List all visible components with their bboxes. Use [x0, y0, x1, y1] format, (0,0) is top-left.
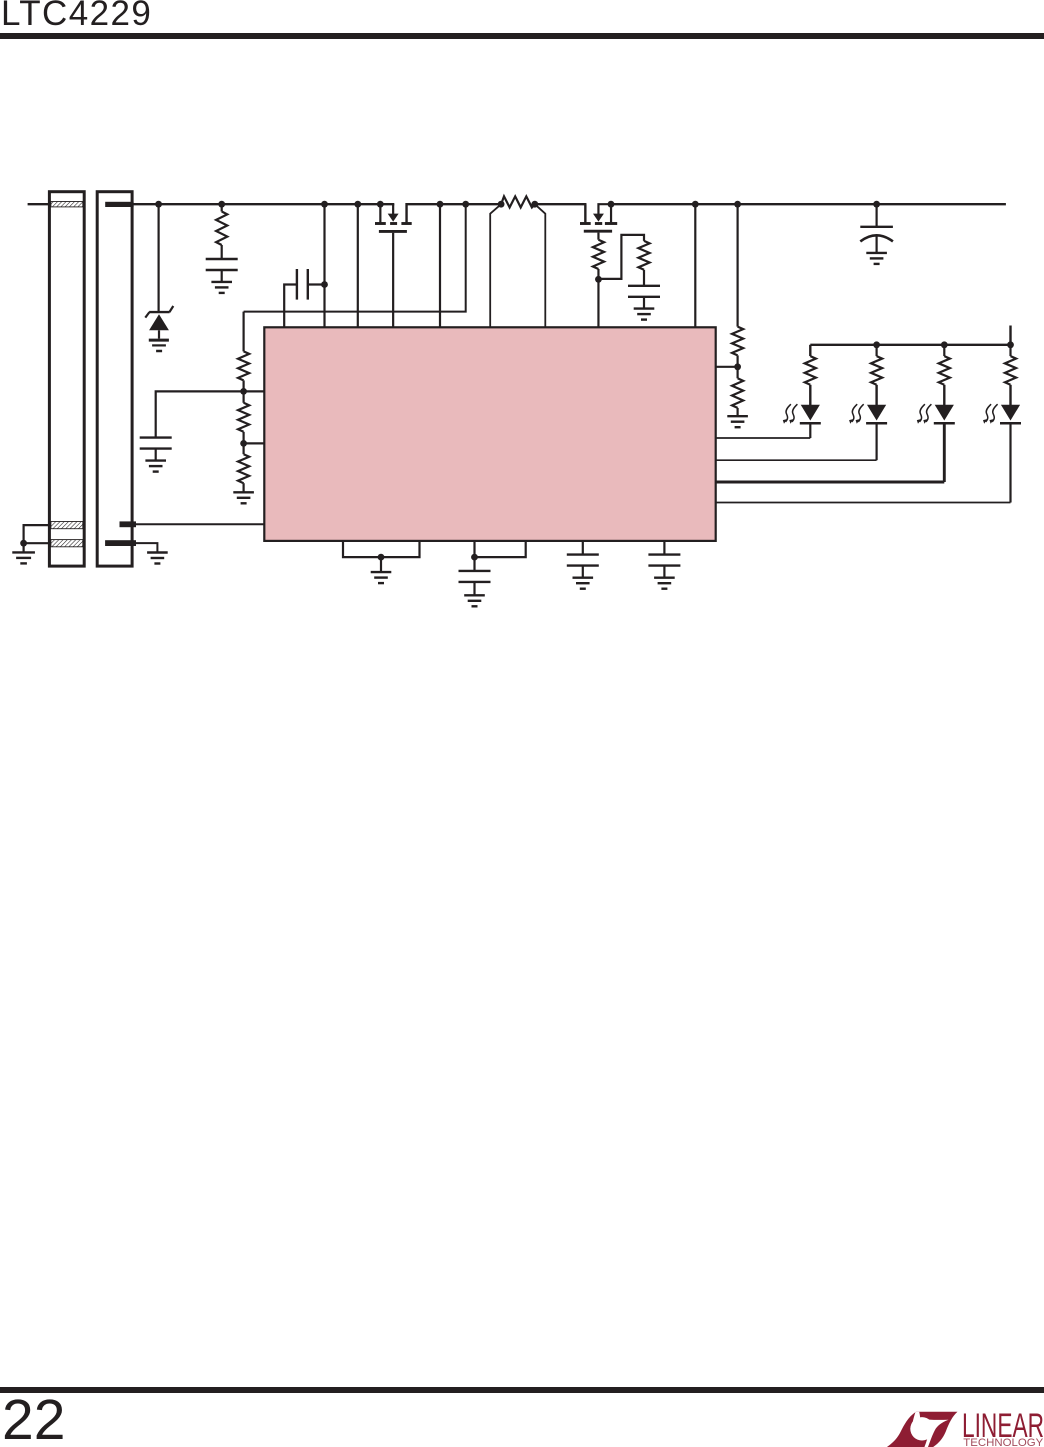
connector J1 (backplane): [49, 192, 84, 566]
node bus-R7: [734, 201, 741, 208]
capacitor C1: [206, 259, 238, 282]
node J1 ground net: [20, 540, 27, 547]
transistor Q2: [580, 204, 617, 231]
ground zener: [149, 340, 169, 351]
node R7-R8 tap: [734, 363, 741, 370]
Linear Technology logo: [880, 1405, 1044, 1447]
wire U1 bottom pins 1-2: [343, 541, 420, 557]
wire kelvin left: [490, 204, 501, 327]
node C2-right: [321, 281, 328, 288]
capacitor C2: [284, 269, 324, 327]
wire tap1 to IC: [244, 390, 265, 392]
LED D4: [917, 345, 955, 482]
ground C4: [634, 309, 655, 320]
node divider tap2: [240, 440, 247, 447]
wire Q2 gate to IC: [597, 279, 599, 327]
node bus-P358: [354, 201, 361, 208]
capacitor C10: [648, 541, 680, 578]
resistor R6 (snubber): [598, 235, 649, 286]
wire tap2 to IC: [244, 442, 265, 444]
wire J2 lower pin to ground: [136, 543, 157, 552]
node bus-P465: [462, 201, 469, 208]
wire bus segment D: [611, 203, 1006, 205]
node VCC cap net: [471, 554, 478, 561]
node bus-RS-right: [531, 201, 538, 208]
node bus-P695: [692, 201, 699, 208]
wire J2 to IC: [134, 523, 265, 525]
LED D3: [849, 345, 887, 460]
node Q2 gate net: [595, 276, 602, 283]
capacitor C3: [140, 391, 244, 460]
wire bus to IC pin x358: [357, 204, 359, 327]
wire kelvin right: [535, 204, 546, 327]
LED D2: [783, 345, 821, 438]
resistor R5 (Q2 gate): [593, 233, 604, 280]
resistor R1: [216, 204, 227, 259]
ground C10: [654, 578, 675, 589]
wire zener feed: [158, 204, 160, 311]
wire LED D4 return: [716, 481, 945, 484]
resistor R8: [732, 367, 743, 416]
capacitor C9: [567, 541, 599, 578]
node bus-P440: [437, 201, 444, 208]
wire bus to IC pin x440: [439, 204, 441, 327]
node bus-RS-left: [498, 201, 505, 208]
op-amp U1 (hot swap controller IC): [264, 327, 715, 541]
svg-text:TECHNOLOGY: TECHNOLOGY: [963, 1437, 1044, 1447]
resistor R3: [238, 391, 249, 443]
node bottom gnd net: [378, 554, 385, 561]
ground C8: [464, 595, 485, 606]
resistor R4: [238, 443, 249, 492]
wire U1 bottom pins 3-4: [475, 541, 526, 557]
ground C3: [145, 461, 166, 472]
wire bus segment B: [407, 204, 502, 222]
wire J1 pads to ground: [24, 525, 50, 543]
resistor R7: [732, 204, 743, 367]
wire LED D5 return: [716, 502, 1011, 504]
ground C9: [573, 578, 594, 589]
wire bus to IC pin x695: [694, 204, 696, 327]
ground C7: [866, 253, 887, 264]
connector J2 (board edge): [97, 192, 136, 566]
wire tap to IC right: [716, 366, 738, 368]
wire to ground: [380, 557, 382, 572]
node bus-Q2: [608, 201, 615, 208]
ground C1: [211, 282, 232, 293]
wire LED D3 return: [716, 459, 877, 461]
ground R8: [727, 416, 748, 427]
node bus-RC: [218, 201, 225, 208]
wire bus to divider: [244, 204, 466, 311]
capacitor C8: [459, 557, 491, 595]
wire bus to IC pin x324: [323, 204, 325, 327]
ground J2: [147, 553, 168, 564]
node bus-C7: [873, 201, 880, 208]
ground R4: [233, 492, 254, 503]
node bus-zener: [155, 201, 162, 208]
capacitor C7 (polarized): [860, 204, 893, 253]
ground J1: [12, 543, 35, 563]
node rail-LED4: [1007, 341, 1014, 348]
resistor RS (sense): [501, 196, 535, 207]
node bus-P324: [321, 201, 328, 208]
node divider tap1: [240, 388, 247, 395]
transistor Q1: [375, 204, 412, 231]
wire LED rail: [810, 326, 1010, 345]
capacitor C4: [628, 286, 660, 309]
node rail-LED3: [941, 341, 948, 348]
node rail-LED2: [873, 341, 880, 348]
LED D5: [983, 345, 1021, 503]
zener diode D1: [145, 306, 173, 339]
wire input stub: [28, 203, 51, 205]
wire bus segment C: [535, 204, 587, 222]
wire LED D2 return: [716, 437, 811, 439]
wire bus segment A: [131, 203, 394, 205]
node bus-Q1: [377, 201, 384, 208]
resistor R2: [238, 312, 249, 392]
ground U1 pins: [371, 572, 392, 583]
wire Q1 gate to IC: [392, 233, 394, 327]
